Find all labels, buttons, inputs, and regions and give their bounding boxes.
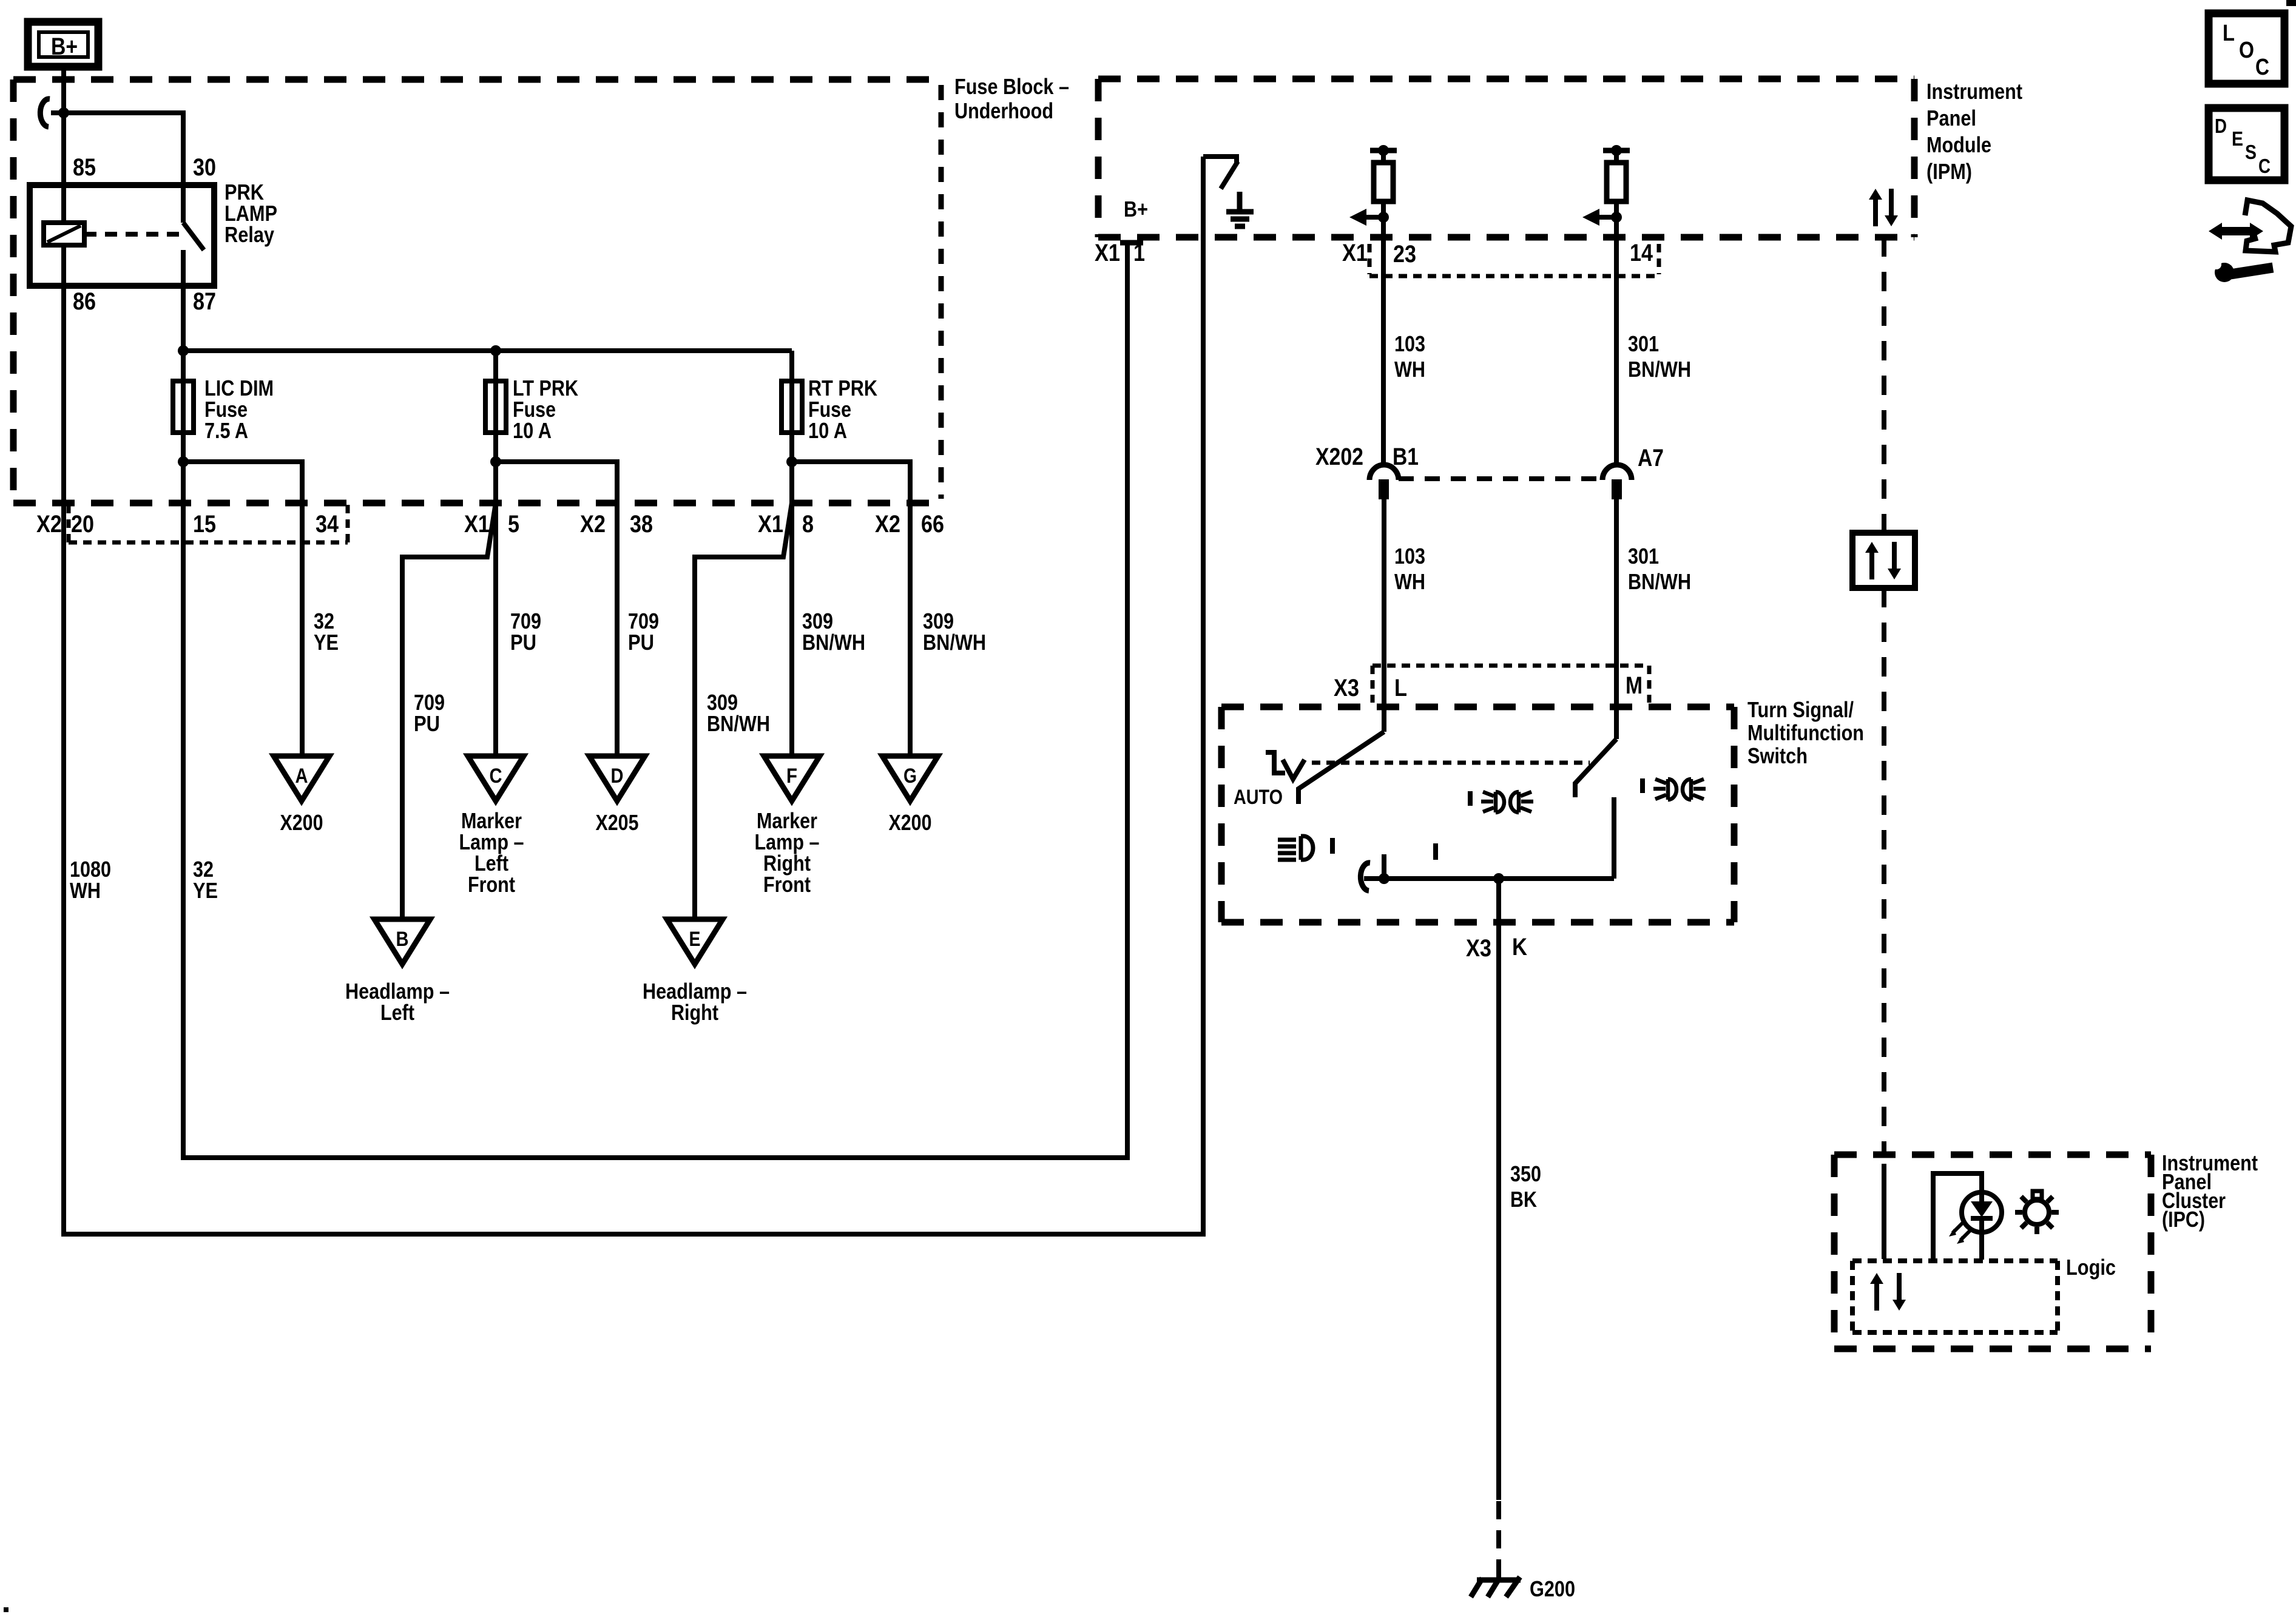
svg-text:BK: BK [1510, 1187, 1537, 1212]
svg-text:X1: X1 [464, 511, 490, 538]
headlamp low beam icon [1278, 836, 1313, 860]
ground switch inside IPM [1203, 157, 1237, 163]
contact tick (right lamp icon) [1640, 778, 1645, 793]
pin labels X1 23 14 [1342, 240, 1653, 268]
wire label 309 BN/WH (connector E) [707, 690, 770, 736]
junction splice [58, 107, 69, 118]
LOC reference box [2209, 13, 2284, 84]
wire R2 to pin X1-14 [1614, 201, 1619, 465]
labels X202 B1 A7 [1315, 444, 1664, 471]
svg-text:(IPC): (IPC) [2162, 1207, 2205, 1232]
svg-text:10 A: 10 A [513, 418, 552, 443]
svg-text:BN/WH: BN/WH [802, 630, 865, 655]
boxed data arrows icon [1852, 533, 1915, 588]
wire R1 to pin X1-23 [1381, 201, 1386, 465]
svg-text:D: D [611, 765, 624, 788]
contact post below M blade [1612, 797, 1616, 879]
svg-text:66: 66 [921, 511, 944, 538]
pin labels X3 K [1466, 934, 1527, 962]
scan artifact top right corner [2286, 0, 2296, 6]
connector F triangle [764, 756, 820, 801]
wire label 709 PU (connector D) [628, 609, 659, 655]
svg-text:X1: X1 [758, 511, 783, 538]
label Headlamp - Left [345, 979, 450, 1025]
wire label 350 BK [1510, 1161, 1541, 1212]
wire bus from relay 87 to fuses [183, 348, 792, 353]
relay PRK LAMP: box [30, 185, 214, 286]
svg-text:X1: X1 [1342, 240, 1368, 266]
svg-text:X2: X2 [36, 511, 62, 538]
svg-text:X3: X3 [1334, 675, 1359, 701]
label Turn Signal / Multifunction Switch [1747, 697, 1864, 768]
svg-text:Switch: Switch [1747, 743, 1808, 768]
pin labels X1 1 [1095, 240, 1145, 266]
headlamps-on icon (middle) [1481, 792, 1533, 812]
headlamps-on icon (right) [1653, 779, 1706, 800]
svg-text:X3: X3 [1466, 935, 1491, 962]
ground symbol inside IPM [1226, 192, 1254, 226]
svg-text:PU: PU [628, 630, 654, 655]
svg-text:Turn Signal/: Turn Signal/ [1747, 697, 1854, 722]
ground switch blade [1221, 161, 1238, 189]
wire LED drive inside IPC [1933, 1173, 1982, 1260]
svg-text:301: 301 [1628, 544, 1659, 569]
resistor R1 (left, circuit 103) [1370, 145, 1397, 201]
svg-text:87: 87 [193, 288, 216, 315]
wire 103 WH to switch pin L [1382, 499, 1386, 732]
instrument panel module IPM dashed box [1098, 79, 1914, 237]
svg-text:86: 86 [73, 288, 96, 315]
relay actuating dashed link [84, 232, 181, 237]
wire relay pin 87 down to bus [181, 250, 186, 351]
svg-text:C: C [490, 765, 502, 788]
svg-text:B: B [396, 928, 409, 951]
svg-text:L: L [2223, 21, 2235, 46]
connector pin labels row 1 [36, 511, 944, 538]
wire label 309 BN/WH (connector F) [802, 609, 865, 655]
wire label 709 PU (connector B) [414, 690, 445, 736]
fuse block underhood dashed box [13, 79, 944, 503]
svg-text:8: 8 [802, 511, 814, 538]
svg-text:B+: B+ [51, 33, 78, 60]
contact tick above common wire [1382, 854, 1386, 879]
instrument panel cluster IPC dashed box [1834, 1155, 2151, 1349]
label Marker Lamp - Left Front [459, 808, 524, 897]
svg-text:K: K [1512, 934, 1527, 960]
svg-text:Fuse Block –: Fuse Block – [954, 74, 1069, 99]
svg-text:S: S [2245, 141, 2257, 163]
svg-text:Front: Front [763, 872, 811, 897]
svg-text:20: 20 [71, 511, 94, 538]
wire 309 BN/WH pin X1-8 down to connector F [789, 462, 794, 756]
in-line connector X202 pin A7 [1602, 465, 1632, 480]
connector B triangle [374, 919, 430, 964]
connector G triangle X200 [882, 756, 938, 835]
svg-text:A7: A7 [1638, 445, 1664, 471]
svg-text:L: L [1394, 675, 1407, 701]
svg-text:A: A [295, 765, 308, 788]
svg-text:X2: X2 [875, 511, 900, 538]
svg-text:Instrument: Instrument [1926, 79, 2022, 104]
svg-text:10 A: 10 A [808, 418, 847, 443]
svg-text:C: C [2255, 55, 2269, 80]
svg-text:B+: B+ [1124, 197, 1148, 221]
svg-text:Multifunction: Multifunction [1747, 720, 1864, 745]
svg-text:PU: PU [510, 630, 536, 655]
svg-text:X200: X200 [889, 810, 932, 835]
connector X202 dashed pair line [1399, 476, 1602, 481]
scan artifact bottom left [4, 1607, 8, 1612]
svg-text:BN/WH: BN/WH [707, 711, 770, 736]
svg-text:D: D [2215, 115, 2227, 137]
svg-text:85: 85 [73, 154, 96, 181]
pin labels X3 L M [1334, 672, 1643, 701]
label Fuse Block - Underhood [954, 74, 1069, 123]
wire 301 BN/WH to switch pin M [1614, 499, 1619, 739]
wire 350 BK from pin X3-K [1496, 879, 1501, 1500]
wire label 301 BN/WH (lower) [1628, 544, 1691, 594]
power symbol B+ (battery feed box, top left) [28, 22, 98, 67]
contact tick (middle lamp icon) [1468, 791, 1473, 806]
relay pin labels 85 30 86 87 [73, 154, 216, 315]
svg-text:E: E [2232, 127, 2243, 150]
label Marker Lamp - Right Front [755, 808, 820, 897]
svg-text:103: 103 [1394, 544, 1425, 569]
svg-text:O: O [2239, 38, 2254, 63]
relay switch blade 30-87 [183, 223, 204, 250]
svg-text:YE: YE [314, 630, 339, 655]
wire branch pin X2-66, 309 BN/WH to connector G [792, 462, 910, 756]
dashed wire to ground [1496, 1501, 1501, 1580]
junction with output arrow (left) [1611, 212, 1622, 223]
svg-text:PU: PU [414, 711, 440, 736]
svg-text:Logic: Logic [2066, 1255, 2116, 1280]
connector A triangle X200 [274, 756, 329, 835]
svg-text:WH: WH [70, 878, 101, 903]
wire label 1080 WH [70, 857, 111, 903]
resistor R2 (right, circuit 301) [1603, 145, 1630, 201]
label Headlamp - Right [643, 979, 747, 1025]
indicator LED [1962, 1192, 2002, 1232]
svg-text:X2: X2 [580, 511, 606, 538]
wire label 309 BN/WH (connector G) [923, 609, 986, 655]
junction below LT PRK fuse [490, 456, 501, 467]
logic fine dashed box [1852, 1261, 2058, 1332]
wire label 103 WH (lower) [1394, 544, 1425, 594]
wire LED to logic [1979, 1232, 1984, 1260]
svg-text:23: 23 [1393, 241, 1416, 268]
clip hook at common wire end [1360, 863, 1370, 891]
contact tick of low beam position [1330, 838, 1335, 854]
junction below RT PRK fuse [786, 456, 797, 467]
wire label 32 YE (pin 34) [314, 609, 339, 655]
svg-text:X200: X200 [280, 810, 323, 835]
svg-text:Left: Left [380, 1000, 414, 1025]
svg-text:301: 301 [1628, 331, 1659, 356]
svg-text:F: F [786, 765, 797, 788]
dashed serial data wire continues [1882, 588, 1886, 1154]
svg-text:X202: X202 [1315, 444, 1363, 470]
pin tick X1-1 [1120, 240, 1143, 246]
mechanical link dotted line [1312, 761, 1590, 765]
logic data arrows icon [1870, 1273, 1906, 1311]
junction [178, 345, 189, 356]
svg-text:AUTO: AUTO [1234, 786, 1283, 809]
svg-text:E: E [689, 928, 701, 951]
wire label 103 WH (upper) [1394, 331, 1425, 382]
label Instrument Panel Module (IPM) [1926, 79, 2022, 184]
wire label 709 PU (connector C) [510, 609, 541, 655]
wire 709 PU pin X1-5 down to connector C [493, 462, 498, 756]
svg-text:34: 34 [316, 511, 339, 538]
svg-text:Front: Front [468, 872, 515, 897]
turn signal multifunction switch dashed box [1221, 707, 1734, 922]
svg-text:Panel: Panel [1926, 106, 1976, 130]
parking lamp symbol [1266, 752, 1305, 779]
svg-text:M: M [1626, 672, 1643, 699]
svg-text:5: 5 [508, 511, 519, 538]
wire data line inside IPC [1882, 1164, 1886, 1259]
svg-text:YE: YE [193, 878, 218, 903]
wire 32 YE pin 15 down and to IPM X1-1 [183, 241, 1127, 1158]
in-line connector X202 pin B1 [1369, 465, 1399, 480]
connector repair icon (arrow, terminal outline, wrench) [2209, 200, 2291, 282]
svg-text:G: G [903, 765, 917, 788]
svg-text:14: 14 [1630, 240, 1653, 266]
svg-text:C: C [2258, 155, 2271, 177]
svg-text:7.5 A: 7.5 A [204, 418, 248, 443]
wire branch pin X2-38, 709 PU to connector D [496, 462, 617, 756]
svg-text:X205: X205 [596, 810, 639, 835]
svg-text:BN/WH: BN/WH [923, 630, 986, 655]
fuse block right dashed edge [939, 85, 944, 499]
wire branch 309 BN/WH to headlamp right connector E [695, 503, 792, 919]
ground G200 [1471, 1577, 1521, 1597]
svg-text:350: 350 [1510, 1161, 1541, 1186]
svg-text:WH: WH [1394, 569, 1425, 594]
wire branch B+ to relay pin 30 [51, 113, 183, 223]
connector X1 pins fine dotted box (23 14) [1369, 244, 1659, 276]
svg-text:Underhood: Underhood [954, 98, 1053, 123]
wire label 32 YE (pin 15) [193, 857, 218, 903]
label PRK LAMP Relay [225, 180, 277, 247]
svg-text:BN/WH: BN/WH [1628, 569, 1691, 594]
connector E triangle [667, 919, 723, 964]
junction to pin K [1493, 873, 1504, 884]
junction splice [1379, 873, 1389, 884]
junction [490, 345, 501, 356]
svg-text:38: 38 [630, 511, 653, 538]
wire B+ feed down, 1080 WH to IPM ground switch [64, 67, 1203, 1234]
connector X3 pins fine dotted box (L M) [1373, 666, 1649, 703]
fuse LIC DIM 7.5A [181, 351, 186, 462]
svg-text:BN/WH: BN/WH [1628, 357, 1691, 382]
switch blade from pin L [1298, 732, 1384, 804]
svg-text:103: 103 [1394, 331, 1425, 356]
svg-text:15: 15 [193, 511, 216, 538]
connector C triangle [468, 756, 524, 801]
switch blade from pin M [1575, 739, 1616, 797]
svg-text:G200: G200 [1530, 1576, 1575, 1601]
wire branch pin 34, 32 YE to connector A [183, 462, 302, 756]
junction with output arrow (left) [1378, 212, 1389, 223]
fuse LT PRK 10A [493, 351, 498, 462]
junction below LIC DIM fuse [178, 456, 189, 467]
svg-text:X1: X1 [1095, 240, 1120, 266]
DESC reference box [2209, 108, 2284, 180]
svg-text:Relay: Relay [225, 222, 274, 247]
fuse RT PRK 10A [789, 351, 794, 462]
svg-text:(IPM): (IPM) [1926, 159, 1972, 184]
wire branch 709 PU to headlamp left connector B [402, 503, 496, 919]
svg-text:Right: Right [671, 1000, 718, 1025]
relay coil [44, 223, 84, 245]
switch common wire [1364, 876, 1614, 881]
svg-text:WH: WH [1394, 357, 1425, 382]
clip hook on B+ branch wire [40, 99, 50, 127]
dashed serial data wire IPM to IPC [1882, 237, 1886, 533]
illumination bulb icon [2015, 1191, 2059, 1234]
svg-text:30: 30 [193, 154, 216, 181]
LED emission arrows [1949, 1222, 1971, 1244]
svg-text:Module: Module [1926, 132, 1991, 157]
label Instrument Panel Cluster (IPC) [2162, 1150, 2258, 1232]
lone contact tick [1433, 843, 1438, 860]
svg-text:B1: B1 [1393, 444, 1419, 470]
connector D triangle X205 [589, 756, 645, 835]
IPM data arrows icon [1869, 189, 1898, 226]
svg-text:1: 1 [1133, 240, 1145, 266]
connector X2 pins fine dotted box (20 15 34) [69, 505, 348, 542]
wire label 301 BN/WH (upper) [1628, 331, 1691, 382]
